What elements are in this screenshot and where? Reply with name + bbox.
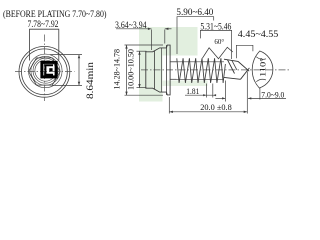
svg-text:3.64~3.94: 3.64~3.94 bbox=[115, 20, 147, 30]
svg-text:7.78~7.92: 7.78~7.92 bbox=[28, 19, 59, 29]
dim 1.81 dimension line bbox=[185, 94, 214, 96]
dim 4.45~4.55 bracket bbox=[236, 45, 253, 58]
svg-text:1.81: 1.81 bbox=[186, 86, 199, 96]
dim 1.81 extension lines bbox=[206, 84, 208, 98]
svg-text:20.0 ±0.8: 20.0 ±0.8 bbox=[200, 103, 232, 112]
drill point flute line 1 bbox=[228, 60, 235, 74]
front view boss ring 4 bbox=[29, 54, 63, 88]
front view vertical centerline bbox=[43, 35, 45, 102]
dim 10.00~10.50 extension lines bbox=[137, 50, 147, 52]
dim 20.0 dimension line bbox=[169, 111, 247, 113]
dim 5.90~6.40 bracket bbox=[177, 17, 214, 54]
dim 5.31~5.46 bracket bbox=[200, 30, 231, 59]
drill point bottom edge bbox=[224, 77, 241, 79]
watermark green top band bbox=[139, 27, 198, 56]
thread root lines bbox=[177, 61, 225, 63]
svg-text:5.90~6.40: 5.90~6.40 bbox=[176, 7, 214, 17]
point end view lens bbox=[252, 51, 273, 88]
drill point flute line 2 bbox=[232, 60, 237, 70]
logo square C mark bbox=[45, 65, 53, 74]
svg-text:14.28~14.78: 14.28~14.78 bbox=[113, 49, 122, 90]
drill point top edge bbox=[224, 59, 238, 61]
front view hexagon bbox=[29, 58, 61, 85]
screw axis centerline bbox=[141, 69, 290, 71]
head hex corner edge bbox=[154, 51, 156, 89]
svg-text:7.0~9.0: 7.0~9.0 bbox=[261, 89, 284, 99]
dim 7.0~9.0 extension line at point start bbox=[224, 81, 226, 102]
dim 8.64min extension lines bbox=[50, 54, 82, 56]
logo center dot bbox=[49, 68, 52, 71]
front view boss ring 1 bbox=[35, 60, 56, 81]
threads bbox=[177, 58, 226, 83]
dim 10.00~10.50 dimension line bbox=[139, 51, 141, 87]
dim 3.64~3.94 dimension line + arrows bbox=[116, 28, 152, 30]
lens bottom extension line bbox=[259, 88, 261, 100]
watermark green strip under threads bbox=[163, 81, 208, 87]
dim 14.28~14.78 extension lines bbox=[125, 44, 164, 46]
dim 20.0 extension lines bbox=[168, 97, 170, 114]
front view boss ring 3 bbox=[31, 56, 60, 85]
svg-text:4.45~4.55: 4.45~4.55 bbox=[238, 30, 279, 40]
60 degree thread profile chevrons bbox=[202, 47, 232, 58]
svg-text:60°: 60° bbox=[214, 38, 224, 46]
front view boss ring 2 bbox=[33, 58, 58, 83]
watermark green left column bbox=[139, 56, 163, 102]
neck cylinder lines bbox=[170, 61, 177, 63]
dim 7.0~9.0 dimension line bbox=[248, 97, 286, 99]
svg-text:(BEFORE PLATING 7.70~7.80): (BEFORE PLATING 7.70~7.80) bbox=[3, 9, 107, 20]
head washer step line bbox=[161, 48, 163, 92]
head side view outline bbox=[146, 45, 170, 95]
front view horizontal centerline bbox=[15, 71, 75, 73]
dim 7.0~9.0 left arrow segment bbox=[215, 97, 225, 99]
svg-text:110°: 110° bbox=[259, 58, 268, 78]
svg-text:8.64min: 8.64min bbox=[85, 61, 95, 99]
dim 3.64~3.94 extension lines bbox=[151, 30, 153, 51]
logo black square ring bbox=[42, 62, 56, 77]
drill point cone bottom edge bbox=[241, 68, 250, 79]
lens chisel arc top bbox=[256, 57, 266, 60]
front view outer flange circle bbox=[19, 46, 70, 97]
svg-text:10.00~10.50: 10.00~10.50 bbox=[126, 49, 135, 90]
drill point cone top edge bbox=[238, 61, 249, 71]
dim 14.28~14.78 dimension line bbox=[126, 45, 128, 95]
lens chisel arc bottom bbox=[256, 79, 266, 81]
front view flange top circle bbox=[22, 49, 68, 95]
svg-text:5.31~5.46: 5.31~5.46 bbox=[200, 21, 231, 31]
dim 8.64min dimension line bbox=[78, 55, 80, 86]
head flange face line bbox=[165, 45, 167, 95]
dim 7.78~7.92 bracket bbox=[30, 29, 59, 60]
